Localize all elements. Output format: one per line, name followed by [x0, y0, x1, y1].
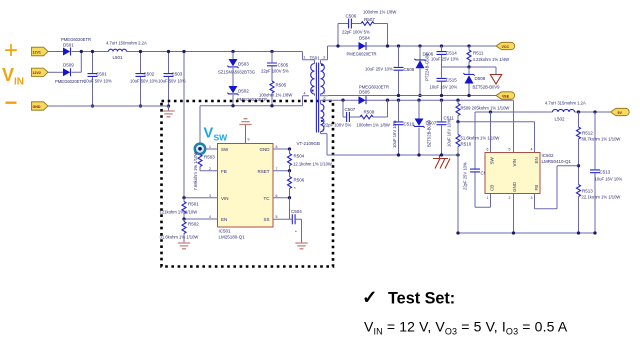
svg-text:1: 1	[209, 145, 211, 149]
resistor R507	[361, 10, 396, 26]
node junction	[417, 153, 420, 156]
node junction	[440, 153, 443, 156]
test set heading	[362, 287, 455, 308]
ground pad pin9	[239, 119, 251, 144]
svg-text:R508: R508	[364, 110, 375, 115]
svg-text:1: 1	[304, 56, 306, 60]
svg-text:L502: L502	[555, 117, 566, 122]
node junction	[456, 231, 459, 234]
node junction	[270, 104, 273, 107]
svg-text:L501: L501	[113, 55, 124, 60]
node junction	[593, 231, 596, 234]
node junction	[182, 50, 185, 53]
resistor R505	[259, 81, 292, 106]
svg-text:12V2: 12V2	[33, 71, 41, 75]
svg-text:R506: R506	[294, 178, 305, 183]
svg-text:10uF 25V 10%: 10uF 25V 10%	[431, 57, 459, 62]
node junction	[593, 110, 596, 113]
svg-text:R512: R512	[582, 131, 593, 136]
wire gnd rail	[48, 105, 169, 107]
resistor R512	[577, 112, 621, 185]
svg-text:+: +	[4, 37, 18, 64]
connector J2 12V input tag	[32, 68, 49, 76]
svg-text:D504: D504	[359, 36, 370, 41]
svg-text:R513: R513	[582, 189, 593, 194]
resistor R509	[456, 100, 509, 122]
capacitor C508	[365, 46, 415, 96]
svg-text:C508: C508	[404, 67, 415, 72]
wire EN net	[458, 122, 535, 153]
node junction	[467, 94, 470, 97]
node junction	[467, 44, 470, 47]
connector GND tag	[32, 102, 49, 110]
svg-text:LM25180-Q1: LM25180-Q1	[219, 235, 246, 240]
svg-text:R504: R504	[294, 154, 305, 159]
svg-text:12V1: 12V1	[33, 50, 41, 54]
svg-text:R510: R510	[461, 142, 472, 147]
svg-text:TC: TC	[264, 196, 271, 201]
svg-text:8: 8	[276, 145, 278, 149]
svg-text:R502: R502	[188, 222, 199, 227]
svg-text:R511: R511	[473, 51, 484, 56]
IC U1 LM25180	[218, 144, 274, 240]
svg-text:PTZ24B-GS08: PTZ24B-GS08	[425, 53, 430, 81]
wire	[289, 198, 291, 220]
resistor R508	[357, 110, 390, 128]
snubber loop wire	[338, 24, 388, 47]
ground	[162, 106, 174, 117]
ground power triangle	[490, 75, 501, 85]
node junction	[397, 99, 400, 102]
node junction	[512, 231, 515, 234]
svg-text:4.22kohm 1% 1/4W: 4.22kohm 1% 1/4W	[473, 57, 510, 62]
svg-text:GND: GND	[33, 105, 41, 109]
wire FB net	[535, 166, 579, 209]
wire	[48, 51, 63, 53]
svg-text:BZT52B-B0V9: BZT52B-B0V9	[427, 119, 432, 147]
node junction	[577, 231, 580, 234]
svg-text:100ohm 1% 1/8W: 100ohm 1% 1/8W	[363, 10, 396, 15]
capacitor C513	[590, 112, 622, 233]
node junction	[417, 99, 420, 102]
svg-text:*: *	[295, 230, 297, 235]
capacitor C505	[261, 50, 289, 81]
power tag VEE	[496, 92, 515, 99]
capacitor C502	[130, 50, 158, 108]
svg-text:Test Set:: Test Set:	[388, 290, 455, 308]
svg-text:C505: C505	[278, 63, 289, 68]
node junction	[182, 196, 185, 199]
boundary dashed box	[162, 101, 334, 267]
node junction	[341, 99, 344, 102]
power tag 5V	[611, 108, 630, 115]
svg-text:9: 9	[248, 138, 250, 142]
resistor R504	[288, 149, 332, 171]
node junction	[440, 99, 443, 102]
inductor L501	[106, 41, 147, 61]
svg-text:R505: R505	[276, 83, 287, 88]
node junction	[440, 44, 443, 47]
ground	[295, 243, 307, 249]
zener D508	[463, 67, 500, 96]
svg-text:5: 5	[276, 215, 278, 219]
svg-text:121kohm 1% 1/10W: 121kohm 1% 1/10W	[160, 210, 198, 215]
capacitor C514	[431, 46, 459, 67]
transformer T501	[297, 46, 329, 155]
wire SW net	[200, 96, 309, 144]
svg-text:7.68kohm 1% 1/10W: 7.68kohm 1% 1/10W	[193, 152, 198, 191]
diode D501	[61, 37, 91, 56]
svg-text:D501: D501	[63, 43, 74, 48]
svg-text:C514: C514	[446, 51, 457, 56]
svg-text:C502: C502	[144, 72, 155, 77]
svg-text:PMEG6020ETR: PMEG6020ETR	[55, 79, 85, 84]
snubber3 loop wire	[343, 100, 388, 117]
svg-text:D505: D505	[359, 90, 370, 95]
wire SW riser U2	[490, 112, 492, 153]
capacitor C503	[158, 50, 186, 108]
svg-text:88.7kohm 1% 1/10W: 88.7kohm 1% 1/10W	[582, 137, 621, 142]
svg-text:SW: SW	[214, 133, 229, 143]
capacitor C504	[290, 209, 303, 243]
node junction	[456, 153, 459, 156]
node junction	[336, 44, 339, 47]
svg-text:4: 4	[304, 92, 306, 96]
svg-text:3: 3	[209, 194, 211, 198]
svg-text:C507: C507	[345, 107, 356, 112]
probe VSW point	[195, 144, 205, 154]
svg-text:BZT52B-B0V9: BZT52B-B0V9	[473, 85, 501, 90]
svg-text:GND: GND	[512, 181, 517, 192]
svg-text:D502: D502	[238, 89, 249, 94]
svg-text:CB: CB	[490, 185, 495, 191]
pin numbers U2	[487, 148, 533, 201]
resistor R510	[456, 122, 499, 233]
node junction FB	[577, 164, 580, 167]
svg-text:3: 3	[531, 196, 533, 200]
wire	[48, 71, 63, 73]
svg-text:100ohm 1% 1/8W: 100ohm 1% 1/8W	[259, 93, 292, 98]
svg-text:4: 4	[531, 148, 533, 152]
node VIN minus label	[6, 102, 17, 104]
capacitor C515	[430, 67, 458, 96]
zener D507	[413, 100, 436, 155]
wire bottom rail	[458, 232, 595, 234]
svg-text:EN: EN	[221, 217, 227, 222]
wire VEE rail	[328, 95, 496, 97]
resistor R503	[193, 152, 218, 191]
svg-text:PMEG6020ETR: PMEG6020ETR	[347, 52, 377, 57]
svg-text:10uF 16V 10%: 10uF 16V 10%	[447, 119, 452, 147]
svg-text:6: 6	[276, 194, 278, 198]
resistor R513	[577, 185, 621, 234]
svg-text:SW: SW	[221, 147, 229, 152]
svg-text:4.7uH 315mohm 1.2A: 4.7uH 315mohm 1.2A	[545, 101, 586, 106]
svg-text:C515: C515	[446, 78, 457, 83]
svg-text:VIN: VIN	[221, 196, 229, 201]
wire VCC rail	[328, 45, 497, 47]
svg-text:C506: C506	[346, 14, 357, 19]
svg-text:10uF 50V 10%: 10uF 50V 10%	[158, 79, 186, 84]
wire gnd3 rail	[327, 154, 458, 156]
connector J1 12V input tag	[32, 47, 49, 56]
svg-text:SW: SW	[490, 156, 495, 164]
wire TC pin	[273, 197, 290, 199]
svg-text:2: 2	[209, 167, 211, 171]
svg-text:R509 205kohm 1% 1/10W: R509 205kohm 1% 1/10W	[461, 106, 510, 111]
svg-text:IC501: IC501	[219, 229, 232, 234]
svg-text:51.6kohm 1% 1/10W: 51.6kohm 1% 1/10W	[461, 136, 500, 141]
svg-text:FB: FB	[534, 185, 539, 191]
node junction	[80, 50, 83, 53]
capacitor C507	[324, 107, 356, 128]
inductor L502	[545, 101, 586, 122]
node junction	[489, 110, 492, 113]
svg-text:C501: C501	[96, 72, 107, 77]
svg-text:VIN = 12 V, VO3 = 5 V, IO3 = 0: VIN = 12 V, VO3 = 5 V, IO3 = 0.5 A	[364, 319, 568, 337]
svg-text:4.7uH 150mohm 2.2A: 4.7uH 150mohm 2.2A	[106, 41, 147, 46]
wire SS pin	[273, 218, 290, 220]
svg-text:12.1kohm 1% 1/10W: 12.1kohm 1% 1/10W	[293, 162, 332, 167]
node junction	[397, 153, 400, 156]
svg-text:C504: C504	[291, 209, 302, 214]
node junction	[386, 44, 389, 47]
capacitor C512	[463, 112, 492, 207]
svg-text:10uF 50V 10%: 10uF 50V 10%	[130, 79, 158, 84]
svg-text:VCC: VCC	[502, 45, 510, 49]
svg-text:C513: C513	[600, 170, 611, 175]
zener D506	[414, 46, 433, 97]
node junction	[182, 217, 185, 220]
svg-text:D508: D508	[475, 76, 486, 81]
svg-text:D503: D503	[238, 62, 249, 67]
wire	[72, 52, 82, 73]
resistor R506	[288, 171, 305, 198]
svg-text:6: 6	[324, 97, 326, 101]
wire VIN riser	[183, 52, 185, 198]
svg-text:22pF 100V 5%: 22pF 100V 5%	[324, 123, 352, 128]
svg-text:R503: R503	[204, 155, 215, 160]
wire 5V rail	[575, 111, 611, 113]
wire GND riser U2	[513, 194, 515, 234]
svg-text:10uF 50V 10%: 10uF 50V 10%	[84, 79, 112, 84]
ground	[178, 243, 190, 249]
capacitor C510	[392, 100, 415, 155]
pin numbers U1	[209, 138, 278, 220]
svg-text:7: 7	[324, 91, 326, 95]
svg-text:EN: EN	[534, 157, 539, 163]
svg-text:*: *	[294, 186, 296, 191]
node junction	[418, 44, 421, 47]
wire SW2 rail	[475, 111, 553, 113]
svg-text:10uF 16V 10%: 10uF 16V 10%	[595, 177, 623, 182]
node junction	[288, 147, 291, 150]
svg-text:1: 1	[487, 196, 489, 200]
svg-text:R507: R507	[364, 17, 375, 22]
node junction	[397, 94, 400, 97]
svg-text:✓: ✓	[362, 287, 378, 308]
svg-text:GND: GND	[260, 147, 271, 152]
wire RSET pin	[273, 170, 290, 172]
svg-text:C503: C503	[172, 72, 183, 77]
svg-text:5: 5	[509, 148, 511, 152]
node junction	[456, 120, 459, 123]
node junction	[440, 94, 443, 97]
svg-text:VEE: VEE	[502, 95, 510, 99]
svg-text:RSET: RSET	[257, 169, 269, 174]
svg-text:2: 2	[509, 196, 511, 200]
resistor R501	[160, 198, 200, 219]
svg-text:10uF 16V 10%: 10uF 16V 10%	[430, 85, 458, 90]
svg-text:VT-2109GB: VT-2109GB	[297, 141, 321, 146]
wire mid gnd rail	[442, 67, 497, 75]
svg-text:6: 6	[487, 148, 489, 152]
IC U2 LMR50410	[485, 153, 572, 194]
wire rail3	[329, 100, 514, 152]
node junction	[288, 196, 291, 199]
zener D502	[227, 86, 267, 106]
ground chassis	[433, 155, 450, 169]
node junction	[456, 99, 459, 102]
wire VIN pin	[184, 197, 218, 199]
node junction	[467, 65, 470, 68]
svg-text:FB: FB	[221, 169, 227, 174]
svg-text:5V: 5V	[618, 111, 623, 115]
svg-text:IC502: IC502	[542, 153, 555, 158]
svg-text:3: 3	[323, 56, 325, 60]
node junction	[231, 104, 234, 107]
svg-text:10uF 25V 10%: 10uF 25V 10%	[365, 67, 393, 72]
diode D505	[359, 85, 390, 105]
wire GND pin	[273, 148, 290, 150]
capacitor C506	[342, 14, 370, 35]
diode D504	[347, 36, 377, 57]
svg-text:22pF 25V 10%: 22pF 25V 10%	[463, 162, 468, 190]
power tag VCC	[496, 42, 515, 49]
node junction	[397, 44, 400, 47]
svg-text:22pF 100V 5%: 22pF 100V 5%	[261, 69, 289, 74]
wire EN pin	[184, 218, 218, 220]
svg-text:22pF 100V 5%: 22pF 100V 5%	[342, 30, 370, 35]
svg-text:31.6kohm 1% 1/10W: 31.6kohm 1% 1/10W	[160, 235, 199, 240]
svg-text:100ohm 1% 1/8W: 100ohm 1% 1/8W	[357, 123, 390, 128]
capacitor C501	[84, 50, 112, 108]
zener D503	[218, 50, 255, 86]
resistor R511	[467, 46, 509, 67]
svg-text:22.1kohm 1% 1/10W: 22.1kohm 1% 1/10W	[582, 195, 621, 200]
wire top rail	[72, 51, 303, 53]
svg-text:D509: D509	[63, 62, 74, 67]
svg-text:VIN: VIN	[512, 159, 517, 167]
svg-text:10uF 16V 10%: 10uF 16V 10%	[392, 120, 397, 148]
diode D509	[55, 62, 85, 84]
wire SW pin	[205, 148, 217, 150]
svg-text:7: 7	[276, 167, 278, 171]
svg-text:V: V	[204, 126, 214, 142]
svg-text:LMR50410-Q1: LMR50410-Q1	[542, 159, 572, 164]
node junction	[577, 110, 580, 113]
svg-text:SZ1SMA5932BT3G: SZ1SMA5932BT3G	[218, 70, 255, 75]
svg-text:2: 2	[323, 129, 325, 133]
svg-text:SS: SS	[263, 217, 269, 222]
svg-text:R501: R501	[188, 202, 199, 207]
svg-text:C510: C510	[404, 122, 415, 127]
capacitor C511	[437, 100, 455, 155]
resistor R502	[160, 219, 200, 243]
svg-text:PMEG6020ETR: PMEG6020ETR	[61, 37, 91, 42]
node junction	[386, 99, 389, 102]
